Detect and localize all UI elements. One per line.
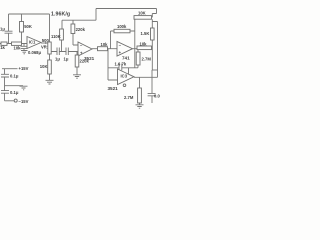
svg-text:10k: 10k: [14, 45, 22, 50]
svg-text:1μ: 1μ: [55, 57, 60, 62]
svg-text:220k: 220k: [80, 59, 90, 64]
svg-text:220k: 220k: [76, 27, 86, 32]
svg-text:IC1: IC1: [29, 40, 36, 45]
svg-text:110K: 110K: [51, 34, 61, 39]
svg-text:10k: 10k: [101, 42, 109, 47]
svg-text:1k: 1k: [0, 45, 5, 50]
svg-text:1μ: 1μ: [0, 27, 5, 32]
svg-text:1.5K: 1.5K: [141, 31, 150, 36]
svg-text:3521: 3521: [108, 86, 119, 91]
svg-text:10K: 10K: [40, 64, 48, 69]
svg-text:1μ: 1μ: [64, 57, 69, 62]
svg-text:100k: 100k: [117, 24, 127, 29]
svg-text:0.1μ: 0.1μ: [10, 74, 19, 79]
svg-text:2.7M: 2.7M: [142, 56, 152, 61]
svg-text:50K: 50K: [24, 24, 32, 29]
svg-text:2.7M: 2.7M: [124, 95, 134, 100]
svg-text:−15V: −15V: [19, 99, 29, 104]
svg-text:0.068μ: 0.068μ: [28, 50, 41, 55]
svg-text:+15V: +15V: [19, 66, 29, 71]
svg-text:10k: 10k: [140, 42, 148, 47]
svg-text:1.96K/g: 1.96K/g: [51, 11, 70, 17]
svg-text:741: 741: [122, 56, 130, 61]
svg-text:IC3: IC3: [121, 74, 128, 79]
svg-text:0.01: 0.01: [154, 94, 160, 99]
svg-text:0.1μ: 0.1μ: [10, 90, 19, 95]
svg-text:10K: 10K: [138, 11, 146, 16]
svg-text:1.6 7k: 1.6 7k: [115, 61, 127, 66]
